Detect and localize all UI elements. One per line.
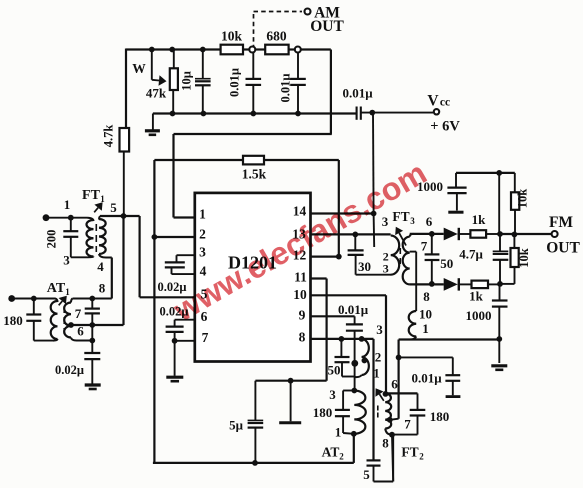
node dot AT1 0.02 top: [89, 322, 95, 328]
svg-text:3: 3: [383, 262, 389, 276]
svg-text:0.01μ: 0.01μ: [342, 86, 373, 101]
label tap 1: [373, 366, 380, 381]
svg-text:0.01μ: 0.01μ: [228, 68, 242, 97]
wire line-A pin1 to AM node: [174, 134, 332, 218]
resistor 1.5k: [242, 156, 267, 182]
capacitor 0.02μ (pins6-7): [160, 305, 195, 341]
pin 6 label: [201, 309, 208, 324]
svg-text:0.02μ: 0.02μ: [55, 363, 84, 377]
node dot 4.7k node: [121, 213, 127, 219]
capacitor 0.02μ lower (AT1) and ground: [55, 325, 101, 389]
label FT3 pin3: [382, 214, 389, 229]
svg-text:3: 3: [376, 322, 383, 337]
node dot 200p: [68, 215, 74, 221]
inductor AT2 top tapped coil: [355, 339, 369, 377]
capacitor 1000 (bottom): [466, 284, 508, 363]
node dot bus/10μ-bottom: [201, 111, 207, 117]
svg-text:8: 8: [423, 289, 430, 304]
wire pin10 to FT2: [311, 295, 387, 393]
svg-text:FT: FT: [82, 188, 101, 203]
node dot pin8/coil: [359, 336, 365, 342]
wire top rail 1000p: [456, 172, 515, 174]
svg-text:5: 5: [110, 200, 117, 215]
node dot bus/cap2-bottom: [295, 111, 301, 117]
arrow tuning FT2: [375, 388, 383, 401]
watermark: [167, 154, 433, 328]
wire line-B 1.5k net: [154, 160, 338, 257]
pin 11 label: [294, 270, 307, 285]
wire FT1 pin4 drop: [111, 258, 113, 299]
capacitor 180 (AT2): [313, 391, 355, 434]
svg-text:50: 50: [440, 256, 453, 271]
pin 4 label: [200, 264, 207, 279]
label FT1 pin1: [64, 197, 71, 212]
svg-text:8: 8: [99, 281, 106, 296]
node dot 0.01 branch: [396, 355, 402, 361]
svg-text:2: 2: [419, 452, 424, 462]
pin 5 label: [201, 287, 208, 302]
node dot 1000/FT3 return: [496, 336, 502, 342]
node dot bus/10μ: [200, 47, 206, 53]
inductor FT1 secondary: [99, 216, 112, 258]
ground (pin7): [166, 341, 183, 381]
node dot 1k-top out: [497, 231, 503, 237]
pin 12 label: [293, 248, 307, 263]
label AT2: [322, 445, 345, 462]
svg-text:FT: FT: [392, 209, 409, 224]
label FT2: [401, 445, 424, 462]
node dot 5μ/bottom bus: [252, 460, 258, 466]
wire pin14 Vcc: [311, 212, 374, 214]
node dot AT2 feed: [351, 360, 358, 367]
svg-text:8: 8: [382, 436, 389, 451]
svg-text:1.5k: 1.5k: [242, 167, 267, 182]
wire FM detect top: [410, 233, 444, 235]
wire bottom return bus: [153, 112, 356, 114]
node dot det50 top: [429, 231, 435, 237]
svg-text:W: W: [132, 61, 146, 76]
wire pin5 from FT1: [140, 216, 195, 297]
svg-text:1: 1: [65, 287, 70, 297]
wire pin13 to FT3: [311, 233, 391, 235]
svg-text:30: 30: [358, 259, 371, 274]
wire rail to 1k node: [498, 173, 500, 234]
pin 8 label: [299, 330, 306, 345]
svg-text:0.01μ: 0.01μ: [279, 74, 293, 103]
arrow tuning FT1: [94, 202, 102, 212]
label FT2 pin7: [404, 417, 411, 432]
terminal input 2 (AT1): [8, 295, 55, 302]
svg-text:3: 3: [410, 216, 415, 226]
svg-text:1: 1: [422, 321, 429, 336]
svg-text:11: 11: [294, 270, 307, 285]
terminal Vcc +6V: [427, 93, 460, 135]
svg-text:5μ: 5μ: [229, 418, 244, 433]
svg-text:1: 1: [64, 197, 71, 212]
wire FT3-FT2 drop: [398, 340, 400, 419]
inductor AT2 main coil: [329, 387, 366, 440]
svg-text:680: 680: [266, 29, 287, 44]
node dot 1k-bottom out: [497, 281, 503, 287]
svg-text:+ 6V: + 6V: [430, 119, 460, 135]
op-amp U1 D1201 IC body: [195, 193, 311, 362]
svg-text:180: 180: [3, 313, 23, 328]
capacitor 0.02μ upper (AT1): [85, 299, 100, 326]
svg-text:3: 3: [199, 245, 206, 260]
inductor FT1 primary: [86, 218, 93, 258]
node dot pin2/lineB: [152, 234, 158, 240]
wire FM out line: [500, 233, 552, 235]
label FT1: [82, 188, 117, 215]
inductor AT1 primary: [51, 299, 58, 341]
label AT1 pin7: [75, 306, 82, 321]
resistor 1k (top): [470, 212, 500, 238]
label FT3: [392, 209, 432, 229]
node dot bus/47k-bottom: [170, 111, 176, 117]
capacitor 50 (osc): [328, 339, 355, 378]
wire FT3 tap7: [410, 252, 417, 285]
node dot pin8/50p: [339, 336, 345, 342]
svg-text:0.01μ: 0.01μ: [411, 371, 442, 386]
inductor AT1 secondary: [64, 299, 92, 341]
capacitor 5 (FT2 return): [363, 435, 393, 482]
resistor 680: [265, 29, 288, 55]
svg-text:10k: 10k: [516, 189, 530, 209]
capacitor 10μ electrolytic: [180, 50, 211, 114]
core AT1: [63, 306, 65, 334]
svg-text:AT: AT: [322, 445, 340, 460]
svg-text:10: 10: [293, 287, 307, 302]
svg-text:7: 7: [421, 239, 428, 254]
potentiometer W 47k: [132, 50, 178, 114]
diode D2: [410, 278, 472, 291]
wire FT3 return: [399, 338, 500, 340]
terminal FM OUT: [546, 214, 580, 257]
svg-text:180: 180: [313, 405, 333, 420]
wire FT2 pin8 down: [392, 435, 393, 482]
svg-text:6: 6: [426, 214, 433, 229]
node dot trimmer plate: [288, 378, 294, 384]
pin 3 label: [199, 245, 206, 260]
svg-text:2: 2: [375, 350, 382, 365]
svg-text:3: 3: [329, 387, 336, 402]
capacitor 0.01μ (AM filter 2): [279, 52, 306, 114]
ground (detector): [491, 366, 507, 370]
label FT1 pin3: [63, 253, 70, 268]
capacitor 50 (detector): [425, 234, 454, 284]
terminal AM OUT: [305, 5, 345, 36]
svg-text:180: 180: [430, 409, 450, 424]
svg-text:10μ: 10μ: [180, 71, 194, 91]
capacitor 30 (FT3 primary): [348, 234, 391, 274]
terminal input 1 (FT1): [43, 214, 88, 221]
capacitor 0.01μ Vcc coupling: [342, 86, 433, 120]
node dot pin7/ground: [172, 338, 178, 344]
node dot bus/47k-top: [169, 47, 175, 53]
capacitor 0.01μ (FM de-emphasis): [399, 357, 461, 396]
node dot pin12/1.5k: [336, 254, 342, 260]
wire Vcc drop: [373, 113, 374, 247]
svg-text:FT: FT: [401, 445, 418, 460]
label FT3 pin10: [419, 307, 432, 322]
wire FT2 pin6: [385, 392, 418, 394]
wire AT1 sec top: [73, 298, 112, 300]
svg-text:4: 4: [97, 259, 104, 274]
label tap 3: [376, 322, 383, 337]
label tap 2: [375, 350, 382, 365]
inductor FT3 lower winding 10-1: [409, 284, 416, 339]
svg-text:OUT: OUT: [546, 240, 580, 257]
wire pin1: [174, 216, 195, 218]
capacitor 0.02μ (pins3-4): [158, 255, 195, 294]
wire pin9: [311, 315, 355, 317]
svg-text:AT: AT: [47, 281, 66, 296]
pin 9 label: [299, 308, 306, 323]
pin 7 label: [202, 330, 209, 345]
svg-text:6: 6: [391, 377, 398, 392]
node dot bus/47k-wiper: [149, 47, 155, 53]
capacitor 1000 (top): [417, 173, 467, 212]
svg-text:1k: 1k: [469, 289, 484, 304]
svg-text:0.01μ: 0.01μ: [338, 302, 369, 317]
capacitor 5μ electrolytic: [229, 381, 263, 463]
label FT3 tap2: [383, 250, 389, 264]
node dot AT1 tap7: [68, 322, 74, 328]
core FT3: [399, 248, 401, 264]
trimmer plate stub: [279, 381, 301, 423]
pin 2 label: [199, 227, 206, 242]
label FT3 pin1: [422, 321, 429, 336]
pin 13 label: [292, 227, 306, 242]
resistor 1k (bottom): [469, 281, 500, 304]
inductor FT2 winding: [385, 393, 391, 434]
inductor FT3 secondary: [403, 234, 444, 285]
label FT2 pin6: [391, 377, 398, 392]
node dot AT1 pin6 node: [89, 338, 95, 344]
node dot FM line/10k: [512, 232, 518, 238]
node dot Vcc branch: [369, 110, 375, 116]
wire pin11 to 5μ rail: [255, 279, 326, 381]
wire AT2 to bottom bus: [353, 434, 355, 463]
label AT1 pin6: [77, 324, 84, 339]
svg-text:10: 10: [419, 307, 432, 322]
capacitor 200 (FT1): [45, 218, 89, 258]
node dot bus/cap1-bottom: [250, 111, 256, 117]
svg-text:10k: 10k: [517, 248, 531, 268]
svg-text:8: 8: [299, 330, 306, 345]
svg-text:50: 50: [328, 363, 341, 378]
svg-text:7: 7: [75, 306, 82, 321]
wire pin2: [154, 236, 194, 238]
wire 680 to pin1 drop: [330, 50, 332, 134]
wire pin12: [311, 256, 339, 258]
node dot FT2 top: [383, 391, 389, 397]
node 680 output (open circle): [295, 47, 301, 53]
svg-text:10k: 10k: [221, 29, 243, 44]
core FT1: [95, 224, 97, 252]
core FT2/AT2: [377, 406, 379, 418]
diode D1: [444, 228, 471, 241]
wire pin8: [311, 338, 374, 340]
resistor 10k: [221, 29, 243, 55]
svg-text:1: 1: [335, 425, 342, 440]
node dot pin14/Vcc: [371, 211, 377, 217]
svg-text:3: 3: [382, 214, 389, 229]
node junction top-bus/4.7k corner: [125, 49, 127, 129]
wire 4.7k node to AT1 tap: [71, 216, 124, 325]
svg-text:6: 6: [77, 324, 84, 339]
pin 1 label: [199, 207, 206, 222]
svg-text:cc: cc: [440, 97, 450, 109]
capacitor 0.01μ (pin9-AT2): [338, 302, 369, 391]
arrow tuning FT3: [395, 227, 406, 246]
capacitor 0.01μ (AM filter 1): [228, 52, 262, 114]
svg-text:3: 3: [63, 253, 70, 268]
node dot FT2 bottom: [389, 432, 395, 438]
svg-text:7: 7: [202, 330, 209, 345]
capacitor 180 (AT1): [3, 299, 53, 341]
node dot AT2 top: [351, 388, 357, 394]
node dot det50 bottom: [429, 281, 435, 287]
label AT1: [47, 281, 70, 297]
label FT2 pin8: [382, 436, 389, 451]
node dot AT2 coil tap2: [362, 358, 368, 364]
capacitor 4.7μ electrolytic: [459, 234, 508, 284]
wire lineB down to bottom bus: [153, 237, 155, 463]
node dot AT1 wire/cap: [89, 296, 95, 302]
svg-text:7: 7: [404, 417, 411, 432]
svg-text:OUT: OUT: [310, 18, 344, 35]
pin 10 label: [293, 287, 307, 302]
pin 14 label: [293, 204, 307, 219]
svg-text:FM: FM: [549, 214, 573, 231]
wire top supply bus: [126, 48, 331, 50]
resistor 10k (upper): [511, 173, 530, 235]
wire pin5 bus: [100, 215, 140, 217]
resistor 10k (lower): [500, 234, 531, 284]
node dot AT2 bottom: [351, 431, 357, 437]
arrow tuning AT1: [59, 296, 67, 306]
svg-text:14: 14: [293, 204, 307, 219]
svg-text:4.7μ: 4.7μ: [459, 247, 483, 262]
svg-text:2: 2: [199, 227, 206, 242]
label FT3 tap3: [383, 262, 389, 276]
svg-text:1: 1: [199, 207, 206, 222]
node AM tap (open circle): [249, 47, 255, 53]
svg-text:1: 1: [100, 194, 105, 204]
capacitor 180 (FT2): [392, 393, 449, 434]
label FT1 pin8: [99, 281, 106, 296]
label FT3 pin7: [421, 239, 428, 254]
svg-text:V: V: [427, 93, 439, 110]
inductor FT3 primary: [391, 236, 399, 275]
node dot pin13/30p: [352, 232, 358, 238]
node dot FT2 tap7: [387, 417, 393, 423]
svg-text:9: 9: [299, 308, 306, 323]
svg-text:4.7k: 4.7k: [102, 125, 116, 148]
node dot rail/1k branch: [496, 170, 502, 176]
svg-text:2: 2: [339, 452, 344, 462]
node dot 180p: [31, 296, 37, 302]
svg-text:5: 5: [363, 467, 370, 482]
svg-text:47k: 47k: [146, 86, 167, 101]
ground (top-left): [145, 114, 160, 135]
svg-text:200: 200: [45, 230, 59, 249]
wire AM OUT dashed: [254, 12, 303, 47]
label FT1 pin4: [97, 259, 104, 274]
wire pin8 drop to cap5: [372, 339, 374, 460]
svg-text:1k: 1k: [472, 212, 487, 227]
resistor 4.7k: [102, 125, 130, 216]
label FT3 pin8: [423, 289, 430, 304]
wire bottom bus: [153, 462, 354, 464]
wire FT2 tap7 link: [390, 419, 399, 420]
svg-text:1000: 1000: [466, 308, 492, 323]
